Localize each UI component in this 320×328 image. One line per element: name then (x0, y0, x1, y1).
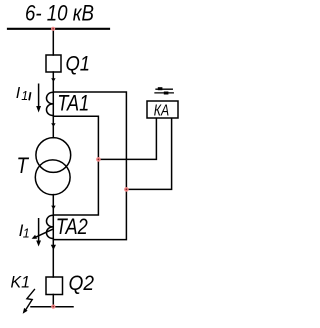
svg-text:КА: КА (154, 102, 169, 119)
svg-text:TA1: TA1 (57, 91, 89, 116)
svg-text:TA2: TA2 (56, 214, 88, 239)
svg-text:Q1: Q1 (66, 52, 91, 75)
svg-text:1: 1 (21, 89, 28, 103)
svg-text:T: T (17, 153, 30, 178)
svg-text:1: 1 (23, 227, 30, 241)
svg-text:Q2: Q2 (69, 271, 95, 295)
svg-text:6- 10 кВ: 6- 10 кВ (25, 0, 94, 25)
svg-text:I: I (16, 85, 21, 102)
svg-text:K1: K1 (11, 273, 31, 292)
